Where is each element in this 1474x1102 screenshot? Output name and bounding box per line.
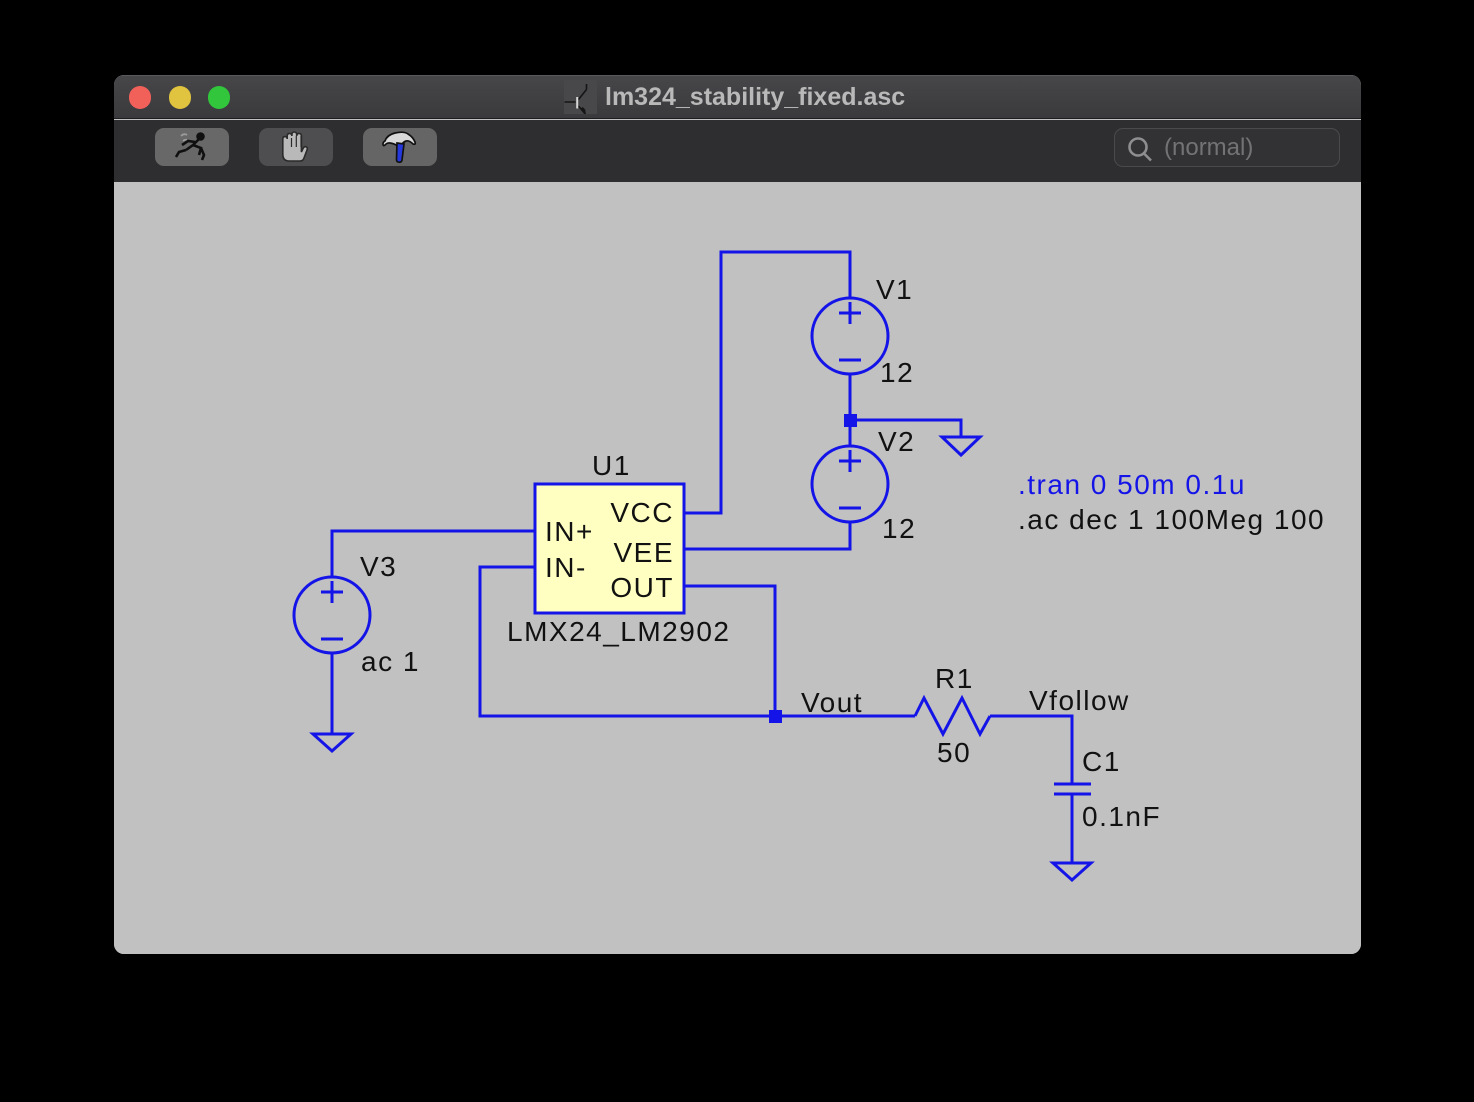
wire R1 to Vfollow node to C1 <box>990 716 1072 784</box>
svg-text:12: 12 <box>880 357 914 388</box>
svg-text:.ac dec 1 100Meg 100: .ac dec 1 100Meg 100 <box>1018 504 1325 535</box>
svg-text:R1: R1 <box>935 663 974 694</box>
junction node Vout <box>769 710 782 723</box>
wire V2 minus to U1 VEE pin <box>684 522 850 549</box>
voltage source V3 <box>294 577 370 653</box>
voltage source V2 <box>812 446 888 522</box>
wire feedback: U1 IN- pin to Vout node <box>480 567 775 716</box>
svg-text:0.1nF: 0.1nF <box>1082 801 1161 832</box>
svg-text:V3: V3 <box>360 551 397 582</box>
svg-text:VEE: VEE <box>613 537 674 568</box>
wire node to ground GND1 <box>850 420 961 437</box>
svg-text:U1: U1 <box>592 450 631 481</box>
wire C1 to ground GND3 <box>1071 794 1074 863</box>
svg-text:12: 12 <box>882 513 916 544</box>
svg-text:OUT: OUT <box>610 572 674 603</box>
wire OUT: U1 OUT pin to Vout node <box>684 586 775 716</box>
svg-text:.tran 0 50m 0.1u: .tran 0 50m 0.1u <box>1018 469 1246 500</box>
wire IN+ net: U1 IN+ pin to V3 plus <box>332 531 535 577</box>
svg-text:ac 1: ac 1 <box>361 646 420 677</box>
ground GND3 <box>1053 863 1091 880</box>
wire V3 minus to ground GND2 <box>331 653 334 734</box>
svg-text:VCC: VCC <box>610 497 674 528</box>
ground GND2 <box>313 734 351 751</box>
resistor R1 <box>915 698 990 734</box>
wire V1 minus to node between V1 and V2 <box>849 374 852 446</box>
svg-text:LMX24_LM2902: LMX24_LM2902 <box>507 616 730 647</box>
wire Vout node to R1 <box>775 715 915 718</box>
capacitor C1 <box>1054 784 1091 794</box>
svg-text:V2: V2 <box>878 426 915 457</box>
svg-text:IN-: IN- <box>545 552 587 583</box>
svg-text:Vfollow: Vfollow <box>1029 685 1130 716</box>
voltage source V1 <box>812 298 888 374</box>
op-amp U1 <box>535 484 684 613</box>
svg-text:IN+: IN+ <box>545 516 594 547</box>
svg-text:C1: C1 <box>1082 746 1121 777</box>
wire VCC net: U1 VCC pin to V1 plus <box>684 252 850 513</box>
svg-text:V1: V1 <box>876 274 913 305</box>
svg-text:Vout: Vout <box>801 687 863 718</box>
junction node between V1 and V2 <box>844 414 857 427</box>
svg-text:50: 50 <box>937 737 971 768</box>
ground GND1 <box>942 437 980 455</box>
